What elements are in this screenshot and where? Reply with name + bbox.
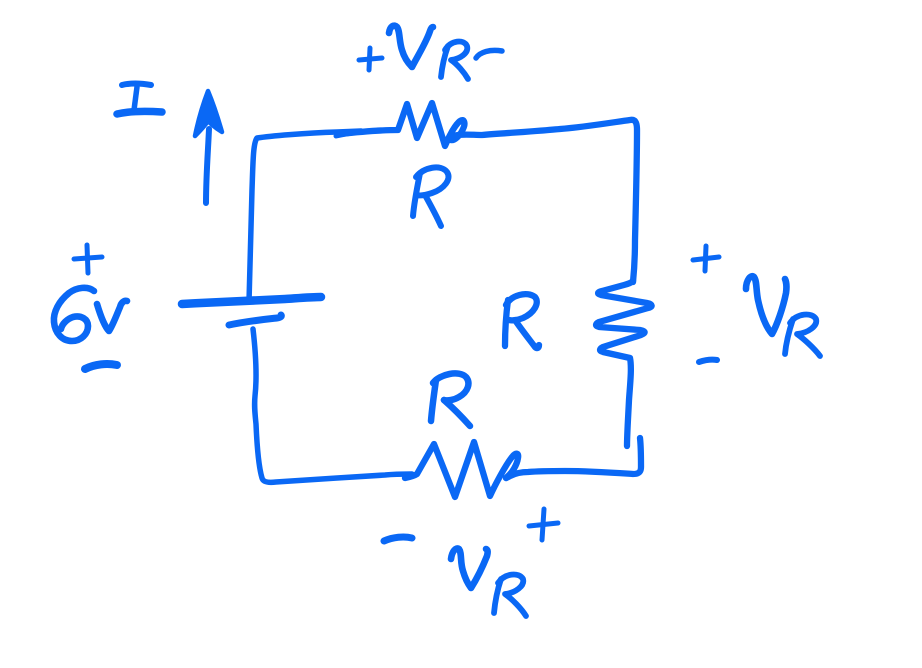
- label R (bottom resistor): [431, 373, 470, 426]
- resistor R bottom (zigzag) and wire to bottom-right corner with hook: [405, 438, 641, 497]
- label V (bottom VR): [451, 548, 488, 588]
- label - (top VR): [476, 50, 502, 58]
- wire: left vertical from battery up to top-left corner, then top wire: [249, 131, 361, 302]
- label I (current): [117, 84, 162, 115]
- label V (top VR): [389, 26, 433, 67]
- label 6v (battery voltage): [54, 288, 127, 341]
- label - (bottom VR): [384, 537, 412, 541]
- resistor R right (vertical zigzag) and wire down: [596, 281, 652, 446]
- label R subscript (top VR): [441, 41, 468, 79]
- label - (battery): [85, 364, 117, 369]
- label + (right VR): [693, 246, 719, 271]
- wire: battery minus down to bottom-left corner, bottom wire to resistor: [253, 329, 412, 482]
- current arrow: [195, 91, 222, 203]
- label R (right resistor): [505, 294, 539, 348]
- battery B1: long plate (+): [182, 297, 321, 304]
- label R subscript (bottom VR): [494, 574, 526, 616]
- label + (battery): [74, 245, 102, 273]
- label R subscript (right VR): [785, 314, 820, 356]
- battery B1: short plate (-): [229, 315, 281, 325]
- resistor R top (zigzag) and wire to top-right corner, right vertical: [339, 103, 637, 282]
- label + (top VR): [359, 48, 382, 70]
- label R (top resistor): [413, 167, 449, 226]
- label + (bottom VR): [529, 509, 558, 540]
- label - (right VR): [699, 360, 717, 362]
- wire overlap dash top: [336, 132, 360, 136]
- label V (right VR): [746, 276, 786, 334]
